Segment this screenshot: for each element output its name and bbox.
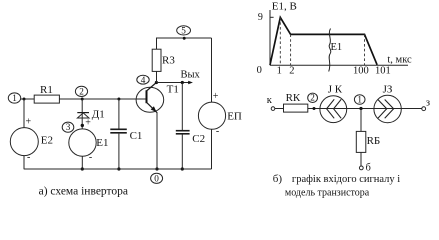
svg-text:E1, В: E1, В xyxy=(272,1,297,13)
transistor T1 xyxy=(136,83,179,113)
waveform E1 xyxy=(270,17,377,65)
node 3 xyxy=(62,122,74,132)
wire C1 top xyxy=(118,99,120,129)
svg-text:2: 2 xyxy=(289,65,294,76)
junction dot E1 bus xyxy=(81,167,84,170)
svg-text:з: з xyxy=(426,98,430,109)
svg-text:0: 0 xyxy=(154,173,159,183)
svg-text:T1: T1 xyxy=(167,84,179,96)
resistor RK xyxy=(284,92,308,112)
svg-text:б): б) xyxy=(273,173,283,185)
svg-text:4: 4 xyxy=(141,75,146,85)
wire base row xyxy=(21,98,147,100)
junction dot C1 tap xyxy=(117,98,120,101)
dashed line t=1 xyxy=(279,17,281,65)
current source JK xyxy=(320,83,347,122)
current source JZ xyxy=(374,83,401,122)
svg-text:E1: E1 xyxy=(96,137,108,149)
terminal z xyxy=(422,98,430,111)
voltage source EP xyxy=(198,91,242,137)
svg-text:101: 101 xyxy=(375,65,391,76)
wire R3 bottom xyxy=(156,72,158,83)
wire R3 top xyxy=(156,38,158,49)
svg-text:2: 2 xyxy=(79,86,84,96)
capacitor C1 xyxy=(110,129,142,142)
svg-text:1: 1 xyxy=(277,65,282,76)
svg-text:0: 0 xyxy=(257,65,262,76)
node 4 xyxy=(137,75,149,85)
diode D1 xyxy=(77,109,105,121)
junction dot collector xyxy=(155,81,158,84)
resistor R3 xyxy=(152,49,175,71)
wire RK to JK xyxy=(308,108,422,110)
svg-text:а) схема інвертора: а) схема інвертора xyxy=(39,186,128,198)
svg-text:модель транзистора: модель транзистора xyxy=(285,187,370,198)
wire diode top xyxy=(81,99,83,129)
wire EP bottom xyxy=(211,129,213,169)
terminal k xyxy=(267,95,275,110)
break squiggle xyxy=(329,29,342,72)
wire ground bus xyxy=(24,168,212,170)
wire C2 bottom xyxy=(181,135,183,170)
wire C1 bottom xyxy=(118,134,120,169)
node 5 xyxy=(177,25,191,35)
node 1 model xyxy=(354,94,365,104)
svg-text:+: + xyxy=(213,91,219,102)
svg-text:t, мкс: t, мкс xyxy=(387,54,412,65)
svg-text:3: 3 xyxy=(66,122,71,132)
svg-text:-: - xyxy=(89,152,92,163)
svg-text:Е1: Е1 xyxy=(331,42,343,53)
wire RB top xyxy=(360,109,362,132)
svg-text:R1: R1 xyxy=(40,84,53,96)
junction dot node 5 xyxy=(183,37,186,40)
wire E2 bottom xyxy=(23,156,25,169)
wire emitter down xyxy=(156,113,158,170)
wire k to RK xyxy=(275,108,284,110)
voltage source E2 xyxy=(10,117,53,164)
svg-text:RБ: RБ xyxy=(367,135,381,147)
node 0 xyxy=(151,173,163,183)
axis X t,mks xyxy=(257,54,412,76)
svg-text:C2: C2 xyxy=(192,133,205,145)
wire E2 top xyxy=(23,99,25,128)
svg-text:JЗ: JЗ xyxy=(383,83,393,95)
capacitor C2 xyxy=(176,131,205,146)
junction dot node1-E2 xyxy=(23,98,26,101)
svg-text:100: 100 xyxy=(353,65,369,76)
svg-text:+: + xyxy=(26,117,32,128)
svg-text:RК: RК xyxy=(286,92,301,104)
node 2 model xyxy=(308,93,318,103)
wire E1 bottom xyxy=(81,156,83,169)
resistor R1 xyxy=(34,84,59,103)
svg-text:-: - xyxy=(27,152,30,163)
svg-text:1: 1 xyxy=(12,93,17,103)
svg-text:-: - xyxy=(216,126,219,137)
svg-text:C1: C1 xyxy=(130,130,143,142)
node 2 xyxy=(75,86,87,96)
wire EP top xyxy=(211,38,213,102)
wire C2 top xyxy=(181,83,183,131)
resistor RB xyxy=(356,131,380,152)
svg-text:ЕП: ЕП xyxy=(227,111,242,123)
junction dot emitter bus xyxy=(155,167,158,170)
svg-text:Вых: Вых xyxy=(181,70,201,81)
dashed line t=2 xyxy=(290,34,292,65)
voltage source E1 xyxy=(69,118,109,164)
output Vyh xyxy=(156,70,200,85)
axis Y E1,B xyxy=(258,1,297,66)
svg-text:J К: J К xyxy=(328,83,343,95)
junction dot C2 tap xyxy=(181,81,184,84)
wire RB bottom xyxy=(360,152,362,166)
svg-text:+: + xyxy=(85,118,91,129)
svg-text:б: б xyxy=(366,163,371,174)
svg-text:2: 2 xyxy=(310,93,315,103)
svg-text:E2: E2 xyxy=(41,135,53,147)
junction dot C2 bus xyxy=(181,167,184,170)
svg-text:Д1: Д1 xyxy=(92,109,105,121)
svg-text:графік вхідого сигналу і: графік вхідого сигналу і xyxy=(292,174,400,185)
junction dot above E1 xyxy=(81,124,84,127)
svg-text:9: 9 xyxy=(258,12,263,23)
dashed line t=100 xyxy=(364,34,366,65)
terminal b xyxy=(359,163,370,174)
wire top rail xyxy=(156,37,212,39)
svg-text:R3: R3 xyxy=(162,55,175,67)
svg-text:к: к xyxy=(267,95,273,106)
svg-text:5: 5 xyxy=(181,25,186,35)
svg-text:1: 1 xyxy=(357,94,362,104)
node 1 xyxy=(8,93,20,103)
junction dot node2 model xyxy=(313,107,316,110)
junction dot node 2 xyxy=(81,98,84,101)
junction dot node1 model xyxy=(359,107,362,110)
junction dot C1 bus xyxy=(117,167,120,170)
